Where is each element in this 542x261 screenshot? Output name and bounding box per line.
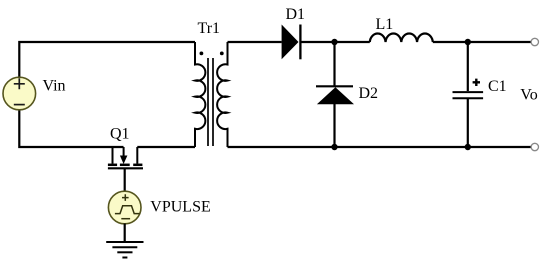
svg-text:Tr1: Tr1 bbox=[198, 20, 221, 37]
svg-text:D1: D1 bbox=[286, 6, 306, 23]
svg-text:C1: C1 bbox=[488, 78, 507, 95]
svg-text:Vo: Vo bbox=[520, 87, 538, 104]
svg-text:Q1: Q1 bbox=[110, 126, 130, 143]
svg-text:L1: L1 bbox=[376, 16, 394, 33]
svg-text:D2: D2 bbox=[359, 85, 379, 102]
svg-text:VPULSE: VPULSE bbox=[150, 198, 210, 215]
svg-text:Vin: Vin bbox=[43, 78, 66, 95]
